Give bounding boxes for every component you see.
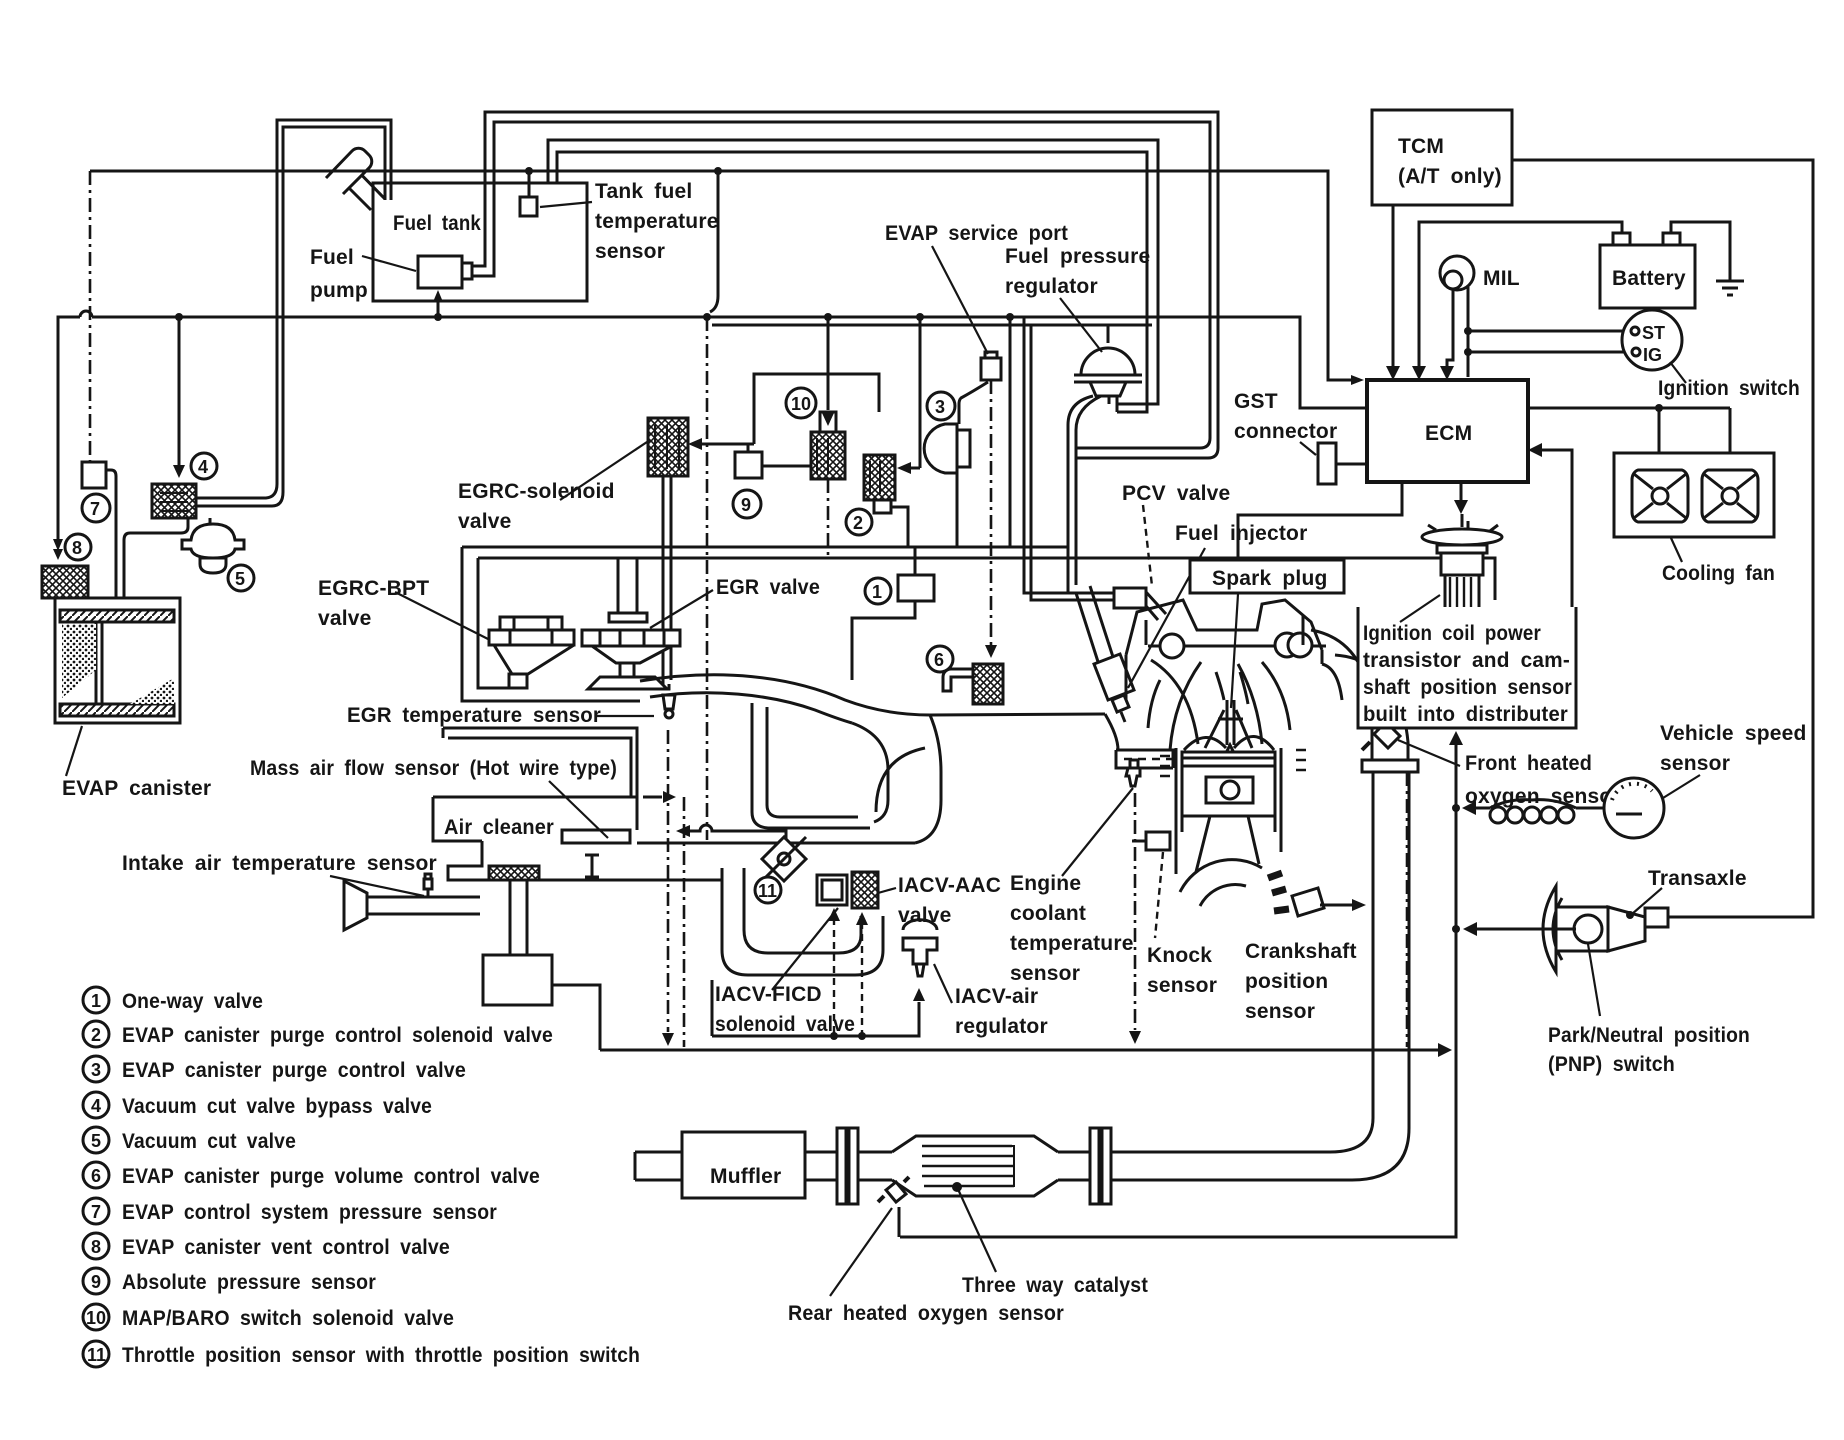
node IG (1464, 348, 1472, 356)
wire branch to valve 10 (827, 317, 830, 410)
svg-text:Ignition coil power: Ignition coil power (1363, 622, 1541, 645)
arrow ECT wire down (1129, 1031, 1141, 1044)
svg-text:EGRC-solenoid: EGRC-solenoid (458, 480, 615, 503)
fan 1 (1632, 470, 1688, 522)
svg-text:11: 11 (87, 1345, 106, 1365)
EGRC-solenoid valve (648, 418, 688, 476)
leader distributor (1400, 595, 1440, 622)
node VSS bus (1452, 804, 1460, 812)
svg-text:Crankshaft: Crankshaft (1245, 940, 1357, 963)
svg-text:Vacuum cut valve: Vacuum cut valve (122, 1130, 296, 1153)
svg-text:(A/T only): (A/T only) (1398, 165, 1502, 188)
svg-text:IG: IG (1643, 345, 1662, 365)
arrow into valve 8 (53, 549, 63, 560)
node pump wire (434, 313, 442, 321)
svg-text:EVAP canister vent control val: EVAP canister vent control valve (122, 1236, 450, 1259)
leader PNP (1588, 944, 1600, 1016)
wire branch to valve 4 (178, 317, 181, 465)
transaxle (1543, 886, 1668, 972)
svg-text:TCM: TCM (1398, 135, 1444, 158)
pipe valve10 to line (827, 479, 830, 558)
svg-text:EGR valve: EGR valve (716, 576, 820, 599)
fuel tank box (373, 183, 587, 301)
wire branch to valve 2 (919, 317, 922, 468)
intake manifold plenum (640, 675, 1118, 843)
svg-text:7: 7 (91, 1202, 101, 1222)
svg-text:EVAP service port: EVAP service port (885, 222, 1068, 245)
wire bottom harness (552, 985, 1448, 1050)
svg-text:4: 4 (198, 457, 208, 477)
svg-text:sensor: sensor (1245, 1000, 1315, 1023)
svg-text:9: 9 (91, 1272, 101, 1292)
throttle duct (502, 843, 915, 880)
svg-text:temperature: temperature (1010, 932, 1134, 955)
pipe to PCV valve (1024, 317, 1114, 600)
circle 10 (786, 388, 816, 418)
wire AAC dashed (861, 922, 863, 1036)
flange 2 (1090, 1128, 1111, 1204)
IACV-air regulator (903, 920, 937, 976)
vehicle speed sensor (1604, 778, 1664, 838)
piston (1182, 752, 1275, 872)
leader fuel pressure regulator (1060, 298, 1102, 352)
exhaust manifold (1311, 630, 1418, 772)
arrow MIL-ECM (1440, 366, 1454, 380)
arrow up into air regulator (913, 988, 925, 1001)
svg-text:Vehicle speed: Vehicle speed (1660, 722, 1807, 745)
fuel supply pipe tank to engine (472, 112, 1218, 458)
wire EGR temp sensor down (667, 730, 670, 1032)
node branch 4 (175, 313, 183, 321)
IACV bypass channel (722, 868, 883, 975)
arrow bottom harness right (1438, 1043, 1452, 1057)
svg-text:Front heated: Front heated (1465, 752, 1592, 775)
tank fuel temperature sensor (520, 172, 537, 216)
pipe flange to catalyst (858, 1152, 892, 1180)
wire VSS coil (1476, 800, 1604, 823)
svg-text:regulator: regulator (1005, 275, 1098, 298)
PCV valve (1114, 588, 1166, 620)
circle 3 (927, 392, 955, 420)
svg-text:Intake air temperature sensor: Intake air temperature sensor (122, 852, 437, 875)
legend 6 (83, 1162, 109, 1188)
TCM box (1372, 110, 1512, 205)
svg-text:Spark plug: Spark plug (1212, 567, 1328, 590)
wire TCM to right border to transaxle (1512, 160, 1813, 917)
svg-text:sensor: sensor (595, 240, 665, 263)
svg-text:3: 3 (935, 397, 945, 417)
svg-text:valve: valve (318, 607, 372, 630)
pipe sensor7 to canister (106, 470, 116, 598)
wire service port line to valve 6 (990, 380, 993, 645)
wire crank sensor (1320, 904, 1352, 907)
node branch top (714, 167, 722, 175)
node branch fpr (1006, 313, 1014, 321)
svg-text:EGR temperature sensor: EGR temperature sensor (347, 704, 601, 727)
leader fuel injector (1128, 548, 1205, 688)
circle 1 (865, 578, 891, 604)
arrow crank sensor wire (1352, 899, 1366, 911)
wire FICD dashed (833, 918, 835, 1036)
svg-text:IACV-FICD: IACV-FICD (715, 983, 822, 1006)
svg-text:Transaxle: Transaxle (1648, 867, 1747, 890)
intake horn (344, 881, 480, 930)
svg-text:3: 3 (91, 1060, 101, 1080)
fuel injector (1076, 586, 1134, 722)
svg-text:2: 2 (853, 513, 863, 533)
IACV-FICD solenoid valve (817, 875, 847, 905)
cylinder head (1126, 600, 1326, 750)
svg-text:IACV-air: IACV-air (955, 985, 1038, 1008)
svg-text:Mass air flow sensor (Hot wire: Mass air flow sensor (Hot wire type) (250, 757, 617, 780)
svg-text:pump: pump (310, 279, 368, 302)
svg-text:4: 4 (91, 1096, 101, 1116)
leader PCV valve (1143, 505, 1152, 586)
node AAC wire (858, 1032, 866, 1040)
leader fuel pump (362, 256, 416, 271)
arrow into valve 6 (985, 645, 997, 658)
circle 4 (191, 453, 217, 479)
fuel return pipe (548, 140, 1158, 412)
wire ECM to cooling fans (1528, 408, 1730, 458)
svg-text:connector: connector (1234, 420, 1337, 443)
node PNP bus (1452, 925, 1460, 933)
node branch 10 (824, 313, 832, 321)
leader IAT (330, 876, 424, 896)
wire second harness line (712, 324, 1152, 327)
svg-text:10: 10 (791, 394, 811, 414)
one-way valve 1 (852, 547, 934, 680)
svg-text:Fuel: Fuel (310, 246, 354, 269)
arrow VSS wire (1462, 801, 1476, 815)
node transaxle (1626, 911, 1634, 919)
svg-text:PCV valve: PCV valve (1122, 482, 1230, 505)
air cleaner housing upper box (443, 728, 637, 797)
legend 5 (83, 1127, 109, 1153)
svg-text:6: 6 (934, 650, 944, 670)
EGRC-BPT valve (489, 617, 574, 688)
ground (1716, 281, 1744, 295)
exhaust pipe muffler to flange (805, 1152, 837, 1180)
svg-text:IACV-AAC: IACV-AAC (898, 874, 1001, 897)
legend 8 (83, 1233, 109, 1259)
leader tank sensor (540, 202, 592, 207)
GST connector (1318, 443, 1367, 484)
svg-text:1: 1 (872, 582, 882, 602)
EVAP service port (981, 352, 1001, 380)
wire MAF to harness (643, 796, 662, 799)
EGR valve (582, 558, 680, 689)
svg-text:temperature: temperature (595, 210, 719, 233)
svg-text:EVAP canister: EVAP canister (62, 777, 211, 800)
wire harness to vent valve (58, 311, 1367, 545)
EVAP control system pressure sensor 7 (89, 171, 92, 462)
svg-text:Three way catalyst: Three way catalyst (962, 1274, 1148, 1297)
leader front O2 (1398, 740, 1460, 766)
legend 4 (83, 1092, 109, 1118)
leader IACV-air regulator (934, 964, 952, 1003)
svg-text:coolant: coolant (1010, 902, 1086, 925)
node tank sensor wire (525, 167, 533, 175)
legend 1 (83, 987, 109, 1013)
arrow up into FICD (828, 908, 840, 921)
spark plug in head (1218, 700, 1243, 753)
svg-text:EGRC-BPT: EGRC-BPT (318, 577, 429, 600)
pipe service port to valve3 (959, 382, 988, 424)
svg-text:Absolute pressure sensor: Absolute pressure sensor (122, 1271, 376, 1294)
svg-text:2: 2 (91, 1025, 101, 1045)
svg-text:Muffler: Muffler (710, 1165, 781, 1188)
muffler (635, 1132, 805, 1198)
EVAP canister purge volume control valve 6 (943, 664, 1003, 704)
arrow into EGRC-solenoid (688, 438, 702, 450)
legend 11 (83, 1341, 109, 1367)
circle 6 (927, 646, 953, 672)
svg-text:EVAP canister purge control va: EVAP canister purge control valve (122, 1059, 466, 1082)
wire IG (1468, 351, 1624, 354)
crankshaft trigger (1180, 860, 1324, 916)
leader IACV-FICD (772, 908, 838, 990)
wire EVAP pressure sensor to ECM (90, 171, 1352, 380)
circle 2 (846, 509, 872, 535)
svg-text:7: 7 (90, 499, 100, 519)
svg-text:Engine: Engine (1010, 872, 1081, 895)
circle 11 (755, 877, 781, 903)
svg-text:Tank fuel: Tank fuel (595, 180, 692, 203)
fuel pump (418, 256, 472, 288)
node catalyst leader (952, 1182, 962, 1192)
leader spark plug (1231, 594, 1238, 708)
wire branch fpr (1009, 317, 1012, 547)
circle 7 (82, 494, 110, 522)
arrow ECM-distributor (1454, 500, 1468, 514)
wire ECM to distributor (1460, 482, 1463, 500)
label ignition coil box (1358, 607, 1576, 728)
leader EVAP canister (66, 726, 82, 776)
wire fuel pump to harness (437, 296, 440, 317)
legend 9 (83, 1268, 109, 1294)
EVAP canister purge control valve 3 (924, 424, 970, 473)
svg-text:Battery: Battery (1612, 267, 1686, 290)
ECM box (1367, 380, 1528, 482)
wire ECT to bottom harness (1134, 793, 1137, 1030)
fuel vapor pipe tank to vacuum cut valve (196, 120, 391, 506)
throttle valve (762, 837, 806, 881)
wire branch down egrc region (706, 317, 709, 840)
MIL lamp (1440, 256, 1474, 290)
node branch 3 (916, 313, 924, 321)
knock sensor (1132, 832, 1170, 850)
label spark plug box (1190, 560, 1344, 593)
pipe catalyst to flange2 (1058, 1152, 1090, 1180)
circle 9 (733, 490, 761, 518)
pipe valve4 down to canister (124, 518, 188, 598)
arrow into valve 4 (173, 465, 185, 478)
arrow into pump (433, 290, 443, 302)
circle 8 (65, 534, 91, 560)
legend 3 (83, 1056, 109, 1082)
svg-text:(PNP) switch: (PNP) switch (1548, 1053, 1675, 1076)
legend 2 (83, 1021, 109, 1047)
flange 1 (837, 1128, 858, 1204)
svg-text:EVAP control system pressure s: EVAP control system pressure sensor (122, 1201, 497, 1224)
EVAP canister (55, 598, 180, 723)
wire PNP switch (1477, 928, 1576, 931)
svg-text:EVAP canister purge control so: EVAP canister purge control solenoid val… (122, 1024, 553, 1047)
svg-text:1: 1 (91, 991, 101, 1011)
rear heated oxygen sensor (878, 1177, 909, 1202)
svg-text:transistor and cam-: transistor and cam- (1363, 649, 1570, 672)
leader cooling fan (1671, 538, 1682, 562)
svg-text:6: 6 (91, 1166, 101, 1186)
arrow into valve 10 marker (811, 412, 845, 479)
arrow into valve 2 (897, 462, 911, 474)
wire ECM lower left (1238, 482, 1402, 560)
leader GST (1300, 442, 1316, 455)
svg-text:sensor: sensor (1660, 752, 1730, 775)
wire exhaust line dashdot (1406, 772, 1409, 1047)
svg-text:One-way valve: One-way valve (122, 990, 263, 1013)
vacuum cut valve 5 (182, 524, 244, 573)
leader EGRC-solenoid (560, 440, 650, 500)
pipe EGRC-solenoid down to EGR valve (663, 476, 671, 686)
svg-text:Throttle position sensor with: Throttle position sensor with throttle p… (122, 1344, 640, 1367)
svg-text:11: 11 (758, 881, 777, 901)
cylinder walls (1160, 748, 1306, 874)
svg-text:9: 9 (741, 495, 751, 515)
EVAP canister vent control valve 8 (42, 566, 88, 598)
arrow MAF wire (663, 791, 676, 803)
wire battery to ECM (1419, 222, 1622, 368)
leader EGRC-BPT (395, 592, 490, 640)
fan 2 (1702, 470, 1758, 522)
leader three way catalyst (957, 1187, 996, 1272)
svg-text:ST: ST (1642, 323, 1665, 343)
front heated oxygen sensor (1362, 716, 1400, 750)
wire ST (1468, 330, 1623, 333)
wire IACV harness (712, 980, 919, 1036)
leader IACV-AAC (878, 888, 896, 893)
legend 7 (83, 1198, 109, 1224)
fuel pipe fpr return (1109, 396, 1117, 412)
leader transaxle (1632, 888, 1662, 914)
leader EVAP service port (932, 246, 988, 354)
circle 5 (228, 565, 254, 591)
wire branch sensor line to harness (710, 171, 718, 312)
arrow TCM-ECM (1386, 366, 1400, 380)
arrow into vent valve (53, 539, 63, 551)
svg-text:sensor: sensor (1147, 974, 1217, 997)
arrow into ECM right (1528, 443, 1542, 457)
svg-text:8: 8 (72, 538, 82, 558)
fuel pipe fpr to injector (1068, 396, 1101, 593)
leader EGR temp sensor (596, 715, 654, 717)
svg-text:EVAP canister purge volume con: EVAP canister purge volume control valve (122, 1165, 540, 1188)
legend 10 (83, 1304, 109, 1330)
arrow battery-ECM (1412, 366, 1426, 380)
battery (1600, 233, 1695, 308)
wire main horizontal pair (462, 547, 1495, 600)
leader MAF (549, 781, 608, 838)
wire battery to ground (1671, 222, 1730, 281)
svg-text:5: 5 (91, 1131, 101, 1151)
svg-text:10: 10 (86, 1308, 106, 1328)
arrow fan1 (1652, 458, 1666, 472)
svg-text:shaft position sensor: shaft position sensor (1363, 676, 1572, 699)
node fan branch (1655, 404, 1663, 412)
leader rear O2 (830, 1208, 892, 1296)
filler neck (326, 148, 385, 210)
wire MIL to ECM (1447, 287, 1468, 377)
svg-text:position: position (1245, 970, 1328, 993)
arrow PNP wire (1463, 922, 1477, 936)
exhaust downpipe (1112, 772, 1409, 1180)
svg-text:MAP/BARO switch solenoid valve: MAP/BARO switch solenoid valve (122, 1307, 454, 1330)
svg-text:built into distributer: built into distributer (1363, 703, 1568, 726)
svg-text:MIL: MIL (1483, 267, 1520, 290)
absolute pressure sensor 9 box (735, 374, 879, 478)
EGR temperature sensor (663, 684, 675, 718)
svg-text:ECM: ECM (1425, 422, 1472, 445)
svg-text:oxygen sensor: oxygen sensor (1465, 785, 1621, 808)
svg-text:Cooling fan: Cooling fan (1662, 562, 1775, 585)
arrow into ECM corner (1351, 375, 1364, 385)
intake air temperature sensor (422, 874, 434, 897)
leader VSS (1663, 775, 1700, 798)
wire distributor label box to ECM (1542, 450, 1572, 607)
arrow fan2 (1723, 458, 1737, 472)
wire TCM to ECM (1392, 205, 1395, 368)
svg-text:Vacuum cut valve bypass valve: Vacuum cut valve bypass valve (122, 1095, 432, 1118)
EGR box (462, 547, 640, 701)
svg-text:8: 8 (91, 1237, 101, 1257)
arrow throttle sensor (676, 825, 690, 837)
svg-text:5: 5 (235, 569, 245, 589)
ignition switch (1622, 310, 1682, 370)
wire throttle sensor (690, 825, 786, 840)
wire fuel rail joins (1067, 430, 1070, 470)
wire MAF dashdot down (683, 797, 686, 1047)
node FICD wire (830, 1032, 838, 1040)
pipe valve3 down (956, 473, 959, 547)
svg-text:sensor: sensor (1010, 962, 1080, 985)
leader ignition switch (1670, 362, 1686, 383)
leader EGR valve (650, 590, 713, 628)
pipe valve4 to valve5 (209, 518, 212, 524)
svg-text:Ignition switch: Ignition switch (1658, 377, 1800, 400)
svg-text:regulator: regulator (955, 1015, 1048, 1038)
node branch egrc (703, 313, 711, 321)
cooling fan box (1614, 453, 1774, 537)
engine coolant temperature sensor (1116, 750, 1174, 786)
wire sensor bus vertical (900, 745, 1456, 1237)
IACV-AAC valve (852, 872, 878, 908)
EVAP canister purge control solenoid valve 2 (864, 455, 908, 547)
svg-text:Fuel pressure: Fuel pressure (1005, 245, 1150, 268)
distributor (1422, 514, 1502, 652)
leader knock sensor (1155, 852, 1163, 938)
svg-text:Fuel injector: Fuel injector (1175, 522, 1307, 545)
leader ECT sensor (1062, 788, 1133, 876)
wire rear O2 to bus (898, 1207, 901, 1237)
node ST (1464, 327, 1472, 335)
three way catalyst (892, 1136, 1058, 1196)
svg-text:Park/Neutral position: Park/Neutral position (1548, 1024, 1750, 1047)
arrow bus up (1449, 731, 1463, 745)
svg-text:Air cleaner: Air cleaner (444, 816, 554, 839)
valve 4 vacuum cut bypass valve (152, 484, 196, 518)
svg-text:Rear heated oxygen sensor: Rear heated oxygen sensor (788, 1302, 1064, 1325)
